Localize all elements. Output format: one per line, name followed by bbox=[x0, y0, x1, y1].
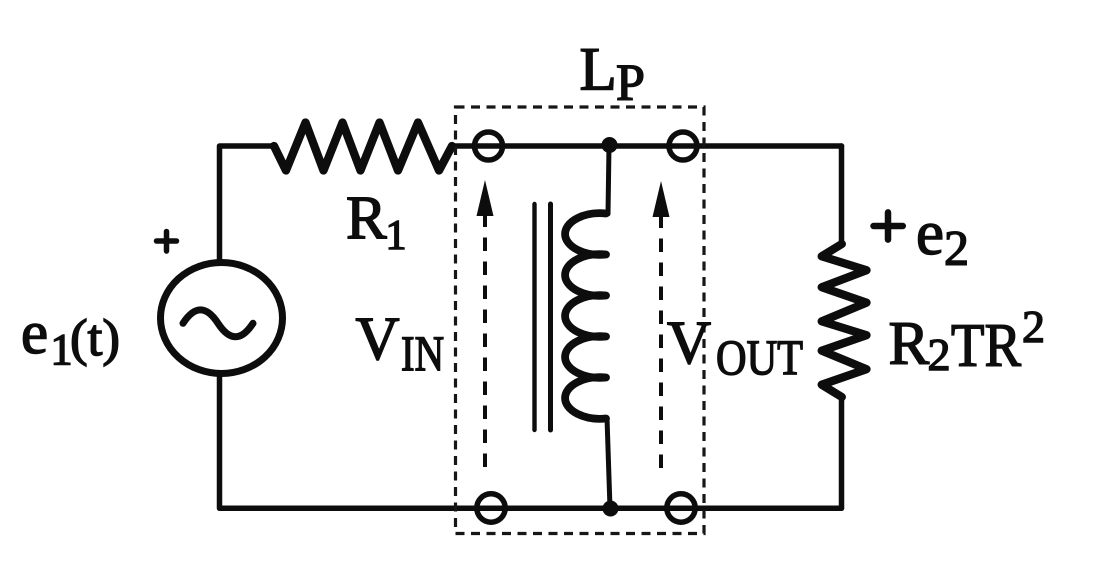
svg-text:e: e bbox=[21, 300, 48, 367]
svg-text:P: P bbox=[616, 55, 645, 112]
wire top-left from source to resistor bbox=[220, 146, 275, 260]
svg-text:TR: TR bbox=[951, 313, 1021, 380]
junction dot top bbox=[602, 137, 618, 153]
wire transformer center vertical top bbox=[608, 146, 609, 214]
dashed boundary box of transformer Lp bbox=[456, 107, 705, 534]
svg-text:e: e bbox=[916, 198, 944, 268]
wire right below R2 bbox=[839, 396, 845, 508]
terminal circle bottom-right bbox=[667, 494, 695, 522]
svg-text:1: 1 bbox=[386, 213, 407, 259]
transformer core line left bbox=[532, 204, 536, 430]
terminal circle bottom-left bbox=[477, 494, 505, 522]
dashed arrow VOUT head bbox=[653, 181, 670, 217]
svg-text:OUT: OUT bbox=[716, 329, 803, 385]
terminal circle top-right bbox=[669, 132, 697, 160]
plus polarity mark of e2 bbox=[874, 212, 903, 239]
AC source U1 circle bbox=[161, 263, 283, 374]
terminal circle top-left bbox=[475, 132, 503, 160]
dashed arrow VIN line bbox=[483, 212, 487, 467]
wire right drop to R2 bbox=[839, 146, 845, 245]
svg-text:2: 2 bbox=[1022, 301, 1045, 352]
resistor R2 bbox=[822, 244, 867, 397]
dashed arrow VIN head bbox=[477, 180, 494, 216]
svg-text:IN: IN bbox=[401, 325, 444, 381]
wire top from R1 through transformer terminals to right corner bbox=[452, 143, 842, 149]
plus polarity mark of source bbox=[157, 232, 177, 252]
AC source sine symbol bbox=[183, 310, 253, 337]
svg-text:L: L bbox=[580, 36, 617, 103]
svg-text:V: V bbox=[356, 306, 400, 373]
wire transformer center vertical bottom bbox=[607, 418, 610, 508]
resistor R1 bbox=[274, 123, 452, 171]
dashed arrow VOUT line bbox=[659, 215, 663, 468]
svg-text:R: R bbox=[889, 311, 930, 378]
svg-text:2: 2 bbox=[928, 329, 951, 380]
svg-text:R: R bbox=[346, 185, 387, 252]
inductor Lp coil bbox=[565, 213, 606, 419]
svg-text:2: 2 bbox=[944, 220, 969, 276]
wire bottom bbox=[220, 377, 842, 508]
transformer core line right bbox=[548, 204, 553, 430]
svg-text:(t): (t) bbox=[70, 310, 120, 367]
junction dot bottom bbox=[603, 501, 619, 517]
svg-text:V: V bbox=[667, 310, 711, 377]
